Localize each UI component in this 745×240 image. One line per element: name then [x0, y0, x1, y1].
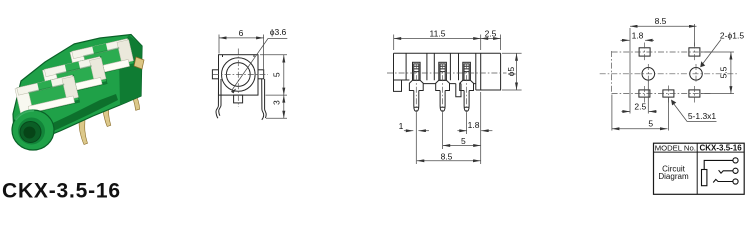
- svg-text:CKX-3.5-16: CKX-3.5-16: [699, 144, 742, 153]
- front view inner circle phi3.6: [226, 63, 250, 87]
- svg-text:5: 5: [648, 118, 653, 128]
- svg-text:1: 1: [399, 121, 404, 131]
- front view vertical centerline: [237, 49, 239, 108]
- wire bottom with switch arm: [713, 179, 733, 182]
- gold pin 3 right: [126, 85, 140, 110]
- leg 2 shaft: [440, 91, 445, 112]
- front view horizontal centerline: [213, 74, 268, 76]
- svg-text:2.5: 2.5: [634, 102, 646, 112]
- contact pin 2: [440, 64, 445, 80]
- phi5 extension lines: [502, 53, 522, 90]
- connector bottom front shading: [20, 94, 118, 142]
- leg 1 shaft: [414, 91, 419, 112]
- svg-text:1.8: 1.8: [468, 120, 480, 130]
- pad bottom-right: [689, 90, 700, 97]
- svg-text:5: 5: [461, 136, 466, 146]
- dimension 1 arrows: [404, 130, 413, 132]
- front view bottom tab: [234, 95, 243, 103]
- label 5-1.3x1 arrowhead: [671, 100, 676, 106]
- column centerline left: [645, 43, 649, 103]
- hole right phi1.5: [690, 68, 703, 81]
- contact slot 2: [439, 62, 447, 80]
- leg 1 centerline: [415, 64, 417, 114]
- svg-text:MODEL No.: MODEL No.: [655, 144, 696, 153]
- table header separator: [654, 151, 745, 153]
- leg 3 centerline: [466, 64, 468, 114]
- front view left tab: [212, 70, 218, 79]
- pad top-left: [639, 48, 650, 56]
- dimension 6 line with arrows: [219, 37, 264, 39]
- svg-text:5-1.3x1: 5-1.3x1: [688, 111, 717, 121]
- column centerline right: [694, 43, 696, 103]
- hole left phi1.5: [642, 68, 655, 81]
- gold contact nub right face: [134, 57, 144, 69]
- label 2-phi1.5 leader: [703, 40, 722, 65]
- gold pin 1: [79, 113, 87, 145]
- svg-text:2-ϕ1.5: 2-ϕ1.5: [720, 30, 744, 40]
- metal clip 1: [70, 38, 135, 79]
- dimension 5 line: [612, 128, 668, 130]
- contact pin 2 hatch: [440, 66, 445, 71]
- barrel recessed face: [18, 118, 45, 145]
- dimension 8.5 line: [417, 160, 481, 162]
- side view center post: [456, 84, 461, 97]
- svg-text:Diagram: Diagram: [658, 172, 689, 181]
- front view outer circle: [222, 58, 256, 92]
- front view left leg: [216, 79, 221, 118]
- barrel hole: [20, 122, 41, 143]
- label 2-phi1.5 arrowhead: [700, 61, 705, 67]
- side view body top and edges: [394, 53, 501, 91]
- row centerline top: [612, 51, 712, 53]
- svg-text:3: 3: [272, 100, 282, 105]
- contact pin 3 hatch: [464, 66, 469, 71]
- pad bottom-middle: [663, 90, 674, 97]
- barrel highlight: [16, 110, 33, 119]
- pad bottom-left: [639, 90, 650, 97]
- svg-text:8.5: 8.5: [441, 151, 453, 161]
- svg-text:ϕ3.6: ϕ3.6: [270, 27, 287, 37]
- table column divider: [696, 143, 698, 194]
- side view bottom edge segments: [423, 83, 476, 85]
- svg-text:2.5: 2.5: [485, 28, 497, 38]
- connector green body: [13, 35, 142, 144]
- dimension 5.5 line: [730, 52, 732, 94]
- leg 3 shaft: [464, 91, 469, 112]
- label phi3.6 underline and leader: [232, 39, 287, 91]
- top dim extension lines: [394, 35, 501, 51]
- gold pin 2: [103, 99, 111, 127]
- svg-text:5: 5: [272, 72, 282, 77]
- column centerline bottom-middle: [667, 86, 669, 103]
- dimension 2.5 line: [481, 38, 501, 40]
- terminal 1 circle: [733, 158, 738, 163]
- label phi3.6 arrowhead: [231, 89, 236, 94]
- contact pin 1 hatch: [414, 66, 419, 71]
- dimension 1.8 arrows: [457, 130, 466, 132]
- side view top dividers: [406, 53, 458, 80]
- terminal 2 circle: [733, 168, 738, 173]
- barrel cylinder: [12, 110, 54, 150]
- side view barrel right portion: [476, 53, 501, 90]
- leg 2 centerline: [442, 64, 444, 114]
- bottom extension lines: [416, 92, 480, 164]
- right dims extension lines: [260, 55, 287, 118]
- contact pin 3: [464, 64, 469, 80]
- dimension 8.5 line: [630, 25, 697, 27]
- leg 3 flare: [460, 80, 474, 90]
- leg 2 flare: [436, 80, 450, 90]
- front view top edge notches: [223, 55, 255, 57]
- svg-text:5.5: 5.5: [719, 66, 729, 78]
- dimension 1.8 arrows: [621, 39, 630, 41]
- dimension 6 extension lines: [219, 35, 264, 70]
- contact pin 1: [414, 64, 419, 80]
- pcb extension lines: [612, 24, 734, 131]
- row centerline bottom: [612, 93, 712, 95]
- svg-text:6: 6: [239, 28, 244, 38]
- front view body: [219, 55, 259, 95]
- hole axis centerline: [600, 73, 737, 75]
- jack sleeve contact box: [702, 170, 707, 186]
- side view horizontal centerline: [387, 72, 507, 74]
- svg-text:ϕ5: ϕ5: [506, 67, 516, 77]
- phantom body outline left: [611, 51, 613, 94]
- metal clip 2: [42, 56, 107, 97]
- front view right leg: [262, 79, 267, 120]
- pad top-right: [689, 48, 700, 56]
- wire sleeve to tip terminal: [704, 160, 733, 169]
- barrel hole inner: [24, 127, 36, 139]
- dimension 11.5 line: [394, 38, 481, 40]
- svg-text:8.5: 8.5: [655, 16, 667, 26]
- contact slot 1: [413, 62, 421, 80]
- wire middle with switch hook: [719, 170, 733, 173]
- dimension phi5 line: [516, 53, 518, 90]
- svg-text:CKX-3.5-16: CKX-3.5-16: [2, 179, 121, 202]
- contact slot 3: [463, 62, 471, 80]
- dimension 3 line vertical: [283, 95, 285, 118]
- svg-text:1.8: 1.8: [632, 31, 644, 41]
- front view right tab: [258, 70, 264, 79]
- dimension 5 line vertical: [283, 55, 285, 95]
- metal clip 3: [15, 75, 80, 116]
- leg 1 flare: [409, 80, 423, 90]
- dimension 5 line: [443, 145, 481, 147]
- terminal 3 circle: [733, 179, 738, 184]
- svg-text:11.5: 11.5: [430, 28, 446, 38]
- label 5-1.3x1 underline and leader: [674, 104, 717, 122]
- dimension 2.5 arrows: [622, 111, 630, 113]
- table border: [654, 143, 745, 194]
- connector right side face: [119, 35, 142, 105]
